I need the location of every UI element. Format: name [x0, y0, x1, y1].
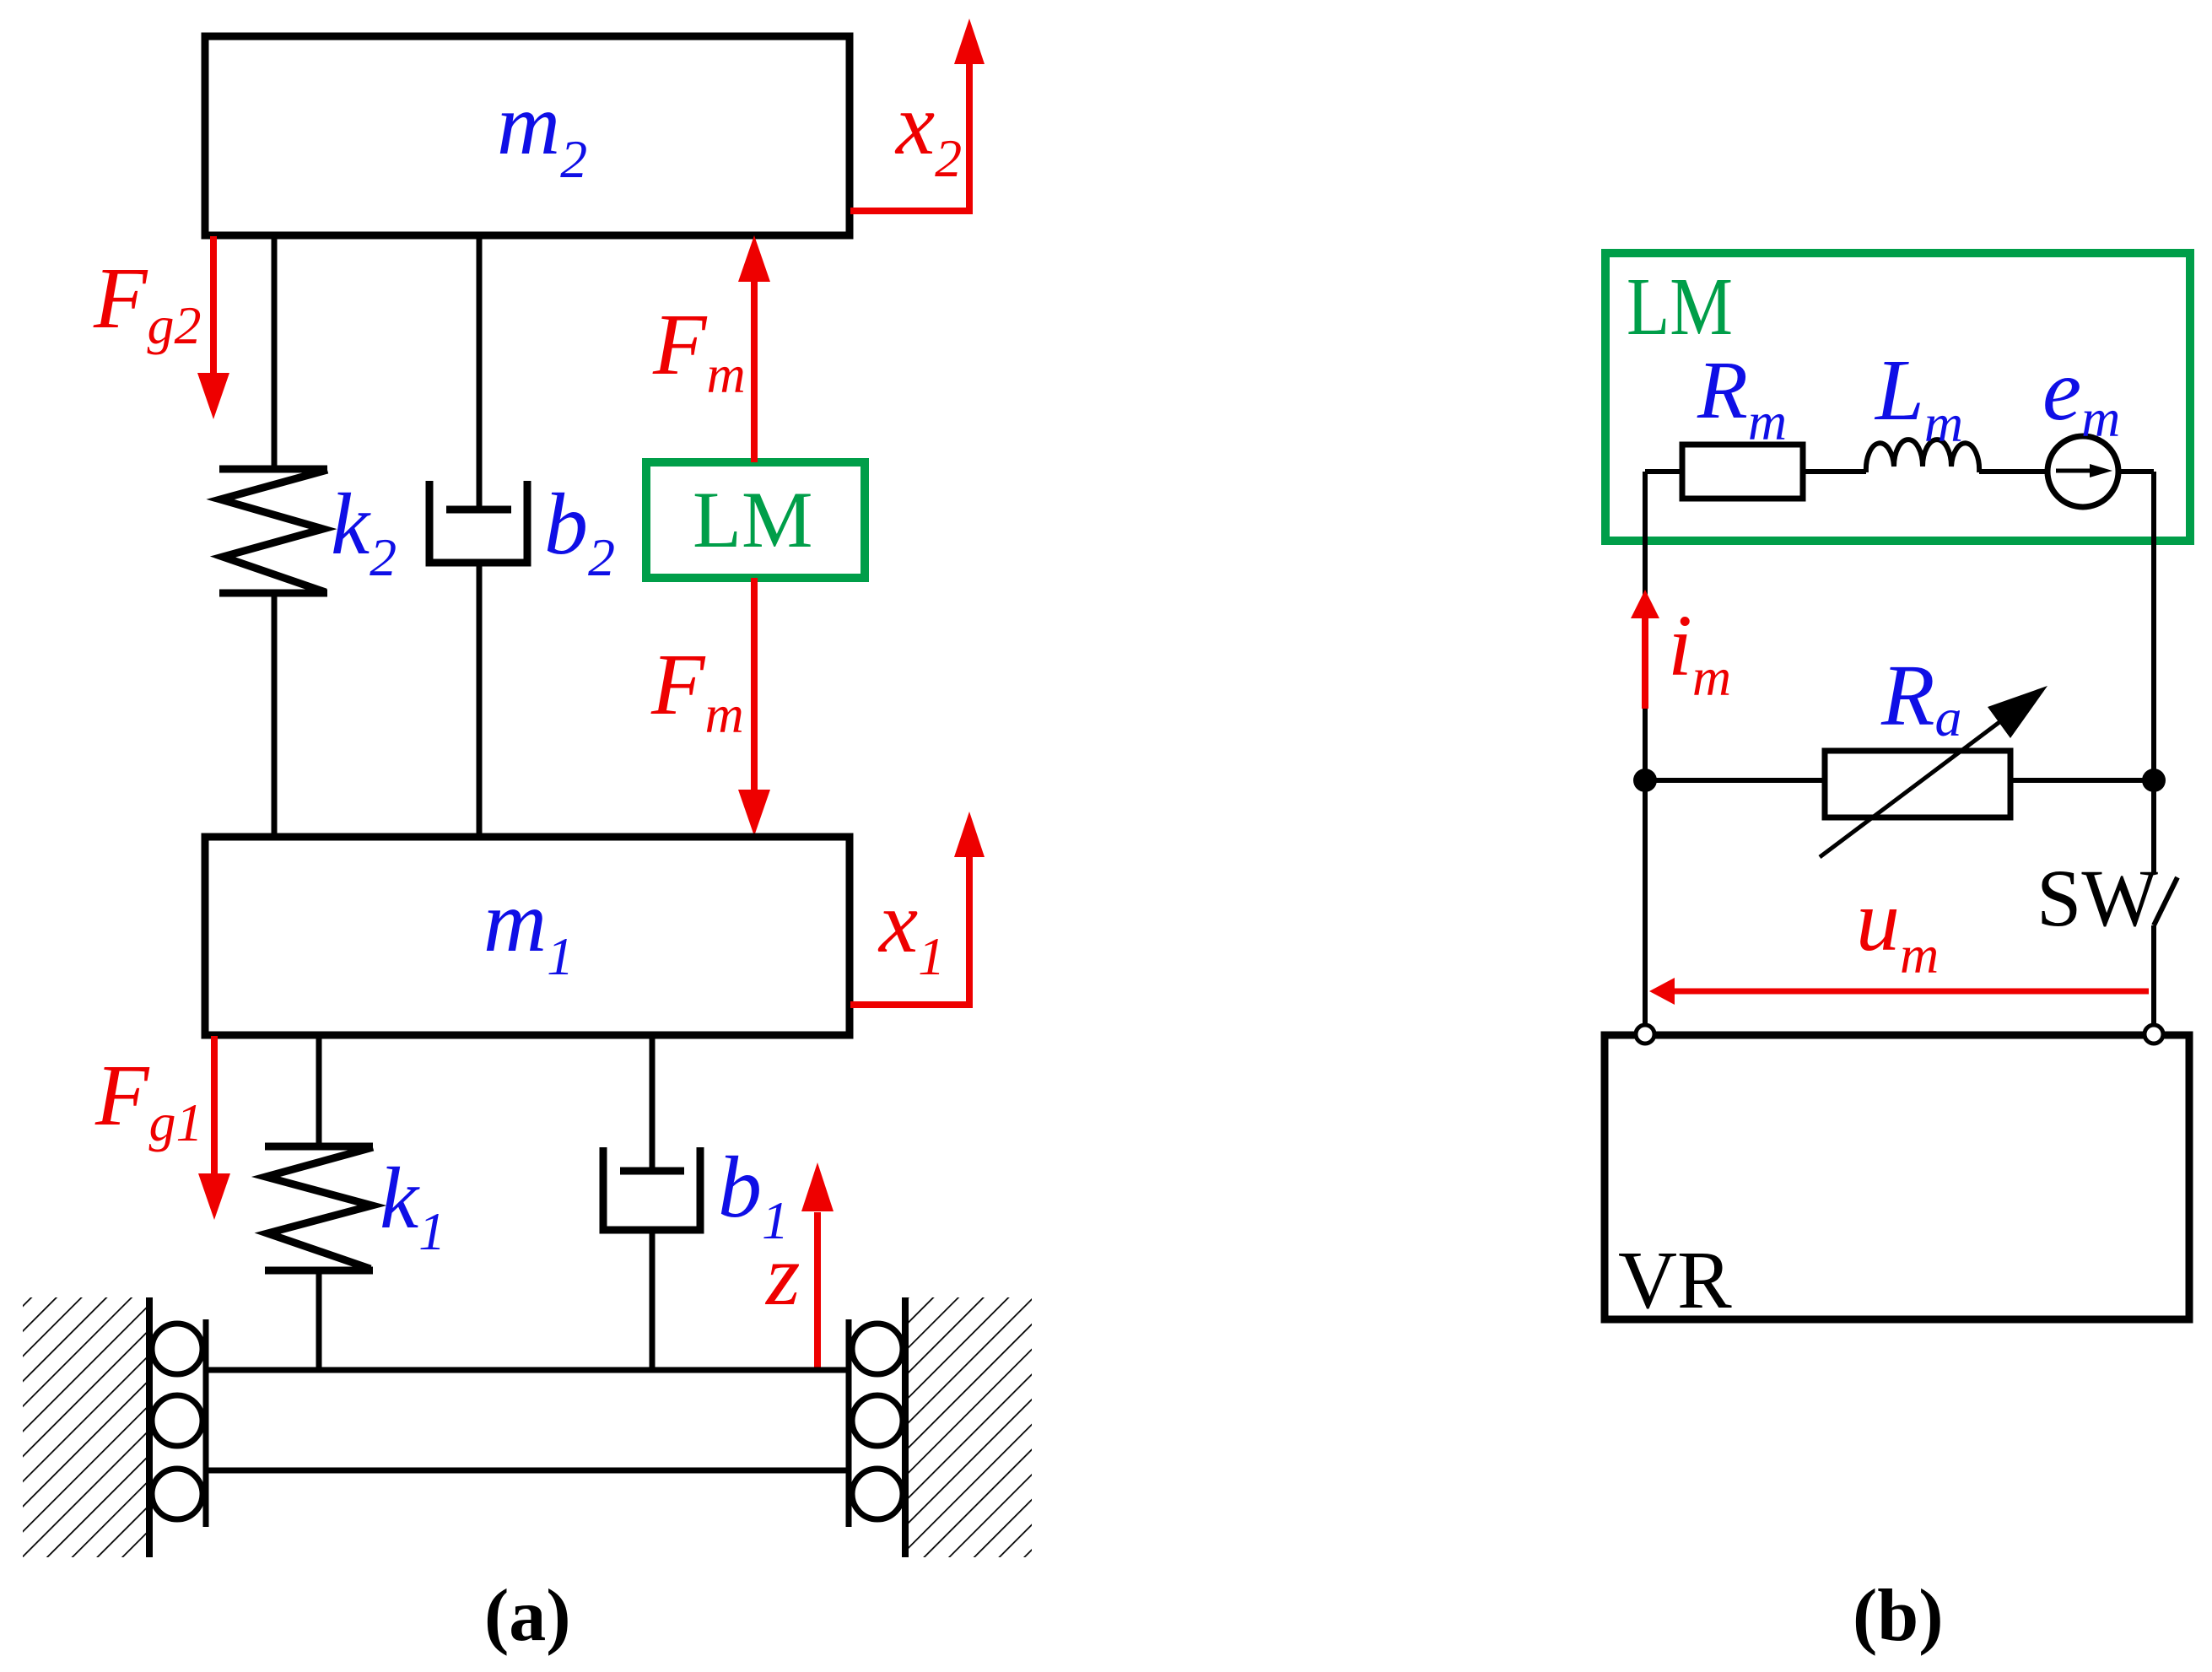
- wire source-right corner: [2118, 469, 2154, 474]
- force Fg2 arrow: [210, 236, 217, 375]
- source em circle: [2047, 436, 2118, 507]
- LM outline box (b): [1605, 253, 2190, 541]
- svg-text:(b): (b): [1853, 1575, 1944, 1657]
- right vertical wire upper: [2151, 472, 2156, 874]
- terminal right: [2145, 1025, 2163, 1044]
- junction node right: [2142, 769, 2166, 792]
- wire inductor-source: [1979, 469, 2047, 474]
- left rollers: [152, 1324, 202, 1519]
- current im arrow: [1642, 617, 1648, 709]
- linear motor LM box (a): [646, 462, 865, 578]
- force Fm upper arrow: [751, 280, 758, 462]
- displacement x1 arrow: [850, 855, 969, 1005]
- variable resistor Ra: [1825, 751, 2010, 817]
- left wall: [23, 1297, 149, 1557]
- terminal left: [1636, 1025, 1654, 1044]
- svg-text:VR: VR: [1618, 1235, 1732, 1325]
- wire left top: [1645, 469, 1682, 474]
- force Fm lower arrow: [751, 578, 758, 791]
- right rollers: [852, 1324, 903, 1519]
- right wall: [905, 1297, 1032, 1557]
- voltage um arrow: [1673, 989, 2149, 995]
- wire resistor-inductor: [1803, 469, 1866, 474]
- svg-text:SW: SW: [2037, 853, 2158, 943]
- displacement x2 arrow: [850, 61, 969, 211]
- svg-text:(a): (a): [484, 1575, 571, 1657]
- svg-text:z: z: [764, 1227, 800, 1324]
- left vertical wire: [1643, 472, 1648, 1026]
- Ra branch wire right: [2010, 778, 2154, 783]
- VR box: [1605, 1035, 2189, 1319]
- spring k2: [219, 235, 327, 837]
- excitation z arrow: [814, 1212, 821, 1367]
- spring k1: [265, 1035, 373, 1370]
- mass m1 box: [205, 837, 850, 1035]
- damper b2: [429, 235, 527, 837]
- switch SW blade: [2154, 877, 2177, 925]
- junction node left: [1633, 769, 1657, 792]
- svg-text:LM: LM: [1627, 262, 1733, 353]
- svg-text:LM: LM: [693, 475, 813, 564]
- Ra branch wire left: [1645, 778, 1825, 783]
- mass m2 box: [205, 36, 850, 235]
- damper b1: [603, 1035, 700, 1370]
- Ra arrow diagonal: [1820, 709, 2016, 857]
- inductor Lm: [1866, 440, 1979, 472]
- resistor Rm: [1682, 445, 1803, 499]
- force Fg1 arrow: [211, 1036, 218, 1175]
- base bar: [206, 1319, 849, 1527]
